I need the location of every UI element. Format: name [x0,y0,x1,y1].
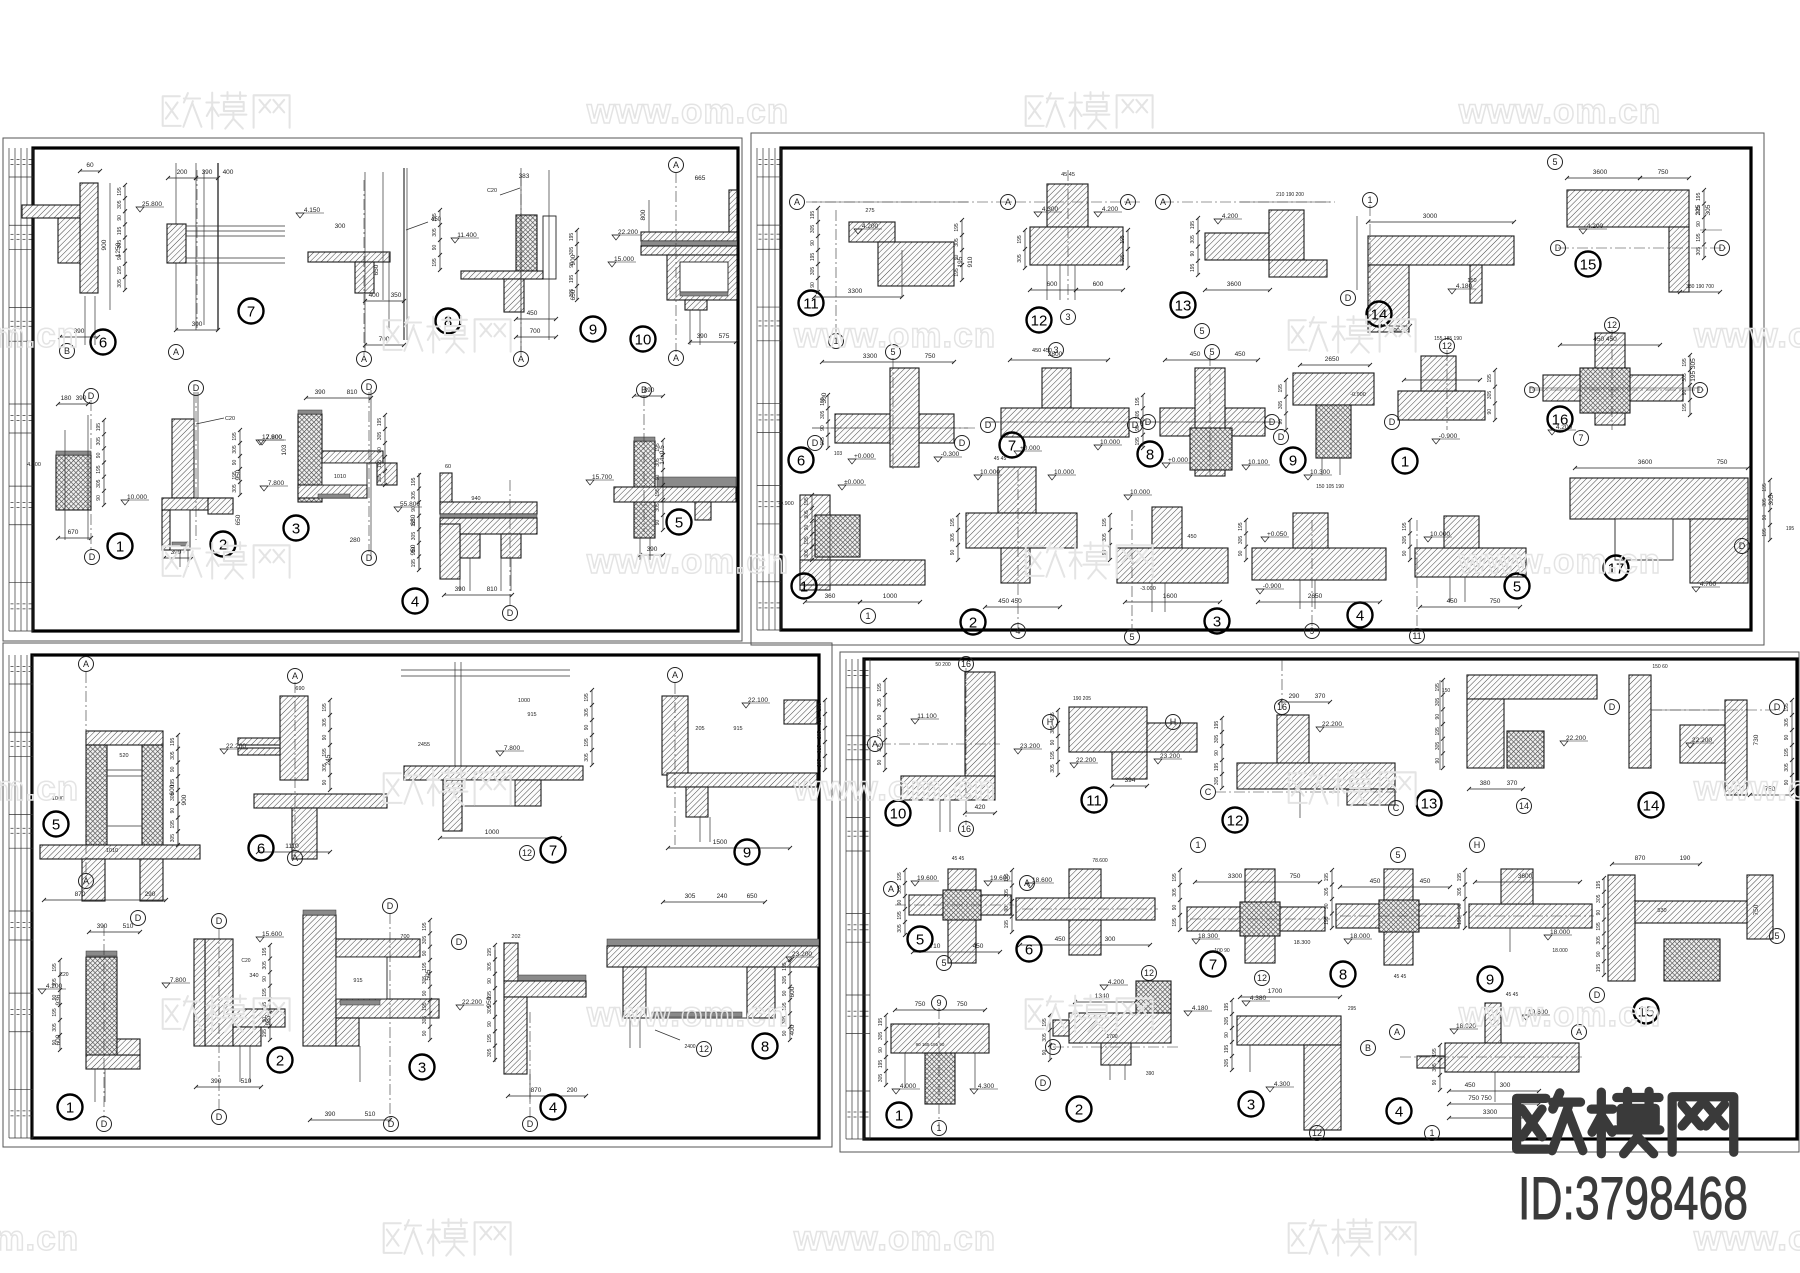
svg-text:670: 670 [68,529,79,536]
svg-text:3: 3 [1213,614,1221,631]
svg-text:700: 700 [530,328,541,335]
svg-text:A: A [361,354,367,364]
svg-text:60: 60 [86,162,94,169]
svg-text:305: 305 [322,718,328,727]
svg-text:383: 383 [519,173,530,180]
svg-text:D: D [387,901,394,911]
svg-text:9: 9 [1289,453,1297,470]
svg-text:11: 11 [803,296,819,313]
svg-text:195: 195 [804,497,810,506]
svg-text:305: 305 [584,708,590,717]
svg-text:90: 90 [950,550,956,556]
svg-text:www.om.cn: www.om.cn [1458,92,1661,131]
svg-text:A: A [1394,1027,1400,1037]
svg-text:5: 5 [1199,326,1204,336]
svg-text:www.om.cn: www.om.cn [0,316,79,355]
svg-text:90: 90 [1402,550,1408,556]
svg-text:90: 90 [1190,251,1196,257]
svg-text:400: 400 [369,292,380,299]
svg-text:C: C [1393,803,1400,813]
svg-text:-3.000: -3.000 [1140,586,1156,592]
svg-text:195: 195 [1324,873,1330,882]
svg-text:394: 394 [1125,777,1136,784]
svg-text:1: 1 [66,1100,74,1117]
svg-text:7: 7 [549,843,557,860]
svg-text:195: 195 [487,948,493,957]
svg-text:205: 205 [817,731,823,740]
svg-text:520: 520 [119,753,128,759]
svg-text:D: D [1345,293,1352,303]
svg-text:A: A [888,884,894,894]
svg-text:5: 5 [1513,579,1521,596]
svg-text:3300: 3300 [848,288,863,295]
svg-text:78.600: 78.600 [1092,858,1108,864]
svg-text:150 60: 150 60 [1652,664,1668,670]
svg-text:90: 90 [411,547,417,553]
svg-text:305: 305 [584,753,590,762]
svg-text:B: B [1365,1043,1371,1053]
svg-text:150 105 190: 150 105 190 [1316,484,1344,490]
svg-text:390: 390 [644,387,655,394]
svg-text:305: 305 [487,962,493,971]
svg-text:305: 305 [1457,887,1463,896]
svg-text:1700: 1700 [1268,988,1283,995]
svg-text:305: 305 [1705,204,1712,215]
svg-text:A: A [673,353,679,363]
svg-text:390: 390 [325,1111,336,1118]
svg-text:305: 305 [810,267,816,276]
svg-text:5: 5 [1774,931,1779,941]
svg-text:90: 90 [810,282,816,288]
svg-text:12: 12 [1227,813,1244,830]
svg-text:450 450: 450 450 [1593,336,1617,343]
svg-text:665: 665 [695,175,706,182]
svg-text:650: 650 [235,514,242,525]
svg-text:90: 90 [1596,910,1602,916]
svg-text:195: 195 [1762,528,1768,537]
svg-text:195: 195 [262,947,268,956]
svg-text:195: 195 [878,1018,884,1027]
svg-text:10: 10 [890,806,907,823]
svg-text:90: 90 [877,715,883,721]
svg-text:280: 280 [350,537,361,544]
svg-text:750: 750 [915,1001,926,1008]
svg-text:305: 305 [820,410,826,419]
svg-text:300: 300 [1105,936,1116,943]
svg-text:915: 915 [527,712,536,718]
svg-text:7: 7 [1578,433,1583,443]
svg-text:195: 195 [411,518,417,527]
svg-text:305: 305 [1696,247,1702,256]
svg-text:195: 195 [422,922,428,931]
svg-text:ID:3798468: ID:3798468 [1518,1165,1748,1232]
svg-text:195: 195 [262,988,268,997]
svg-text:195: 195 [1596,881,1602,890]
svg-text:205: 205 [695,726,704,732]
svg-text:195: 195 [820,397,826,406]
svg-text:700: 700 [400,934,409,940]
svg-text:D: D [507,608,514,618]
svg-text:690: 690 [295,686,304,692]
svg-text:10: 10 [635,332,652,349]
svg-text:195: 195 [96,465,102,474]
svg-text:305: 305 [1596,894,1602,903]
svg-text:90: 90 [232,460,238,466]
svg-text:195: 195 [411,477,417,486]
svg-text:450: 450 [1055,936,1066,943]
svg-text:195: 195 [1224,1003,1230,1012]
svg-text:D: D [1697,385,1704,395]
svg-text:195: 195 [117,187,123,196]
svg-text:305: 305 [1324,887,1330,896]
svg-text:305: 305 [52,1023,58,1032]
svg-text:450: 450 [1447,598,1458,605]
svg-text:305: 305 [1238,536,1244,545]
svg-text:195: 195 [1682,358,1688,367]
svg-text:290: 290 [567,1087,578,1094]
svg-text:A: A [518,354,524,364]
svg-text:195: 195 [96,423,102,432]
svg-text:295: 295 [1348,1006,1357,1012]
svg-text:305: 305 [117,240,123,249]
svg-text:195: 195 [411,559,417,568]
svg-text:90: 90 [1432,1080,1438,1086]
svg-text:650: 650 [373,264,380,275]
svg-text:13: 13 [1175,298,1192,315]
svg-text:195: 195 [954,223,960,232]
svg-text:305: 305 [487,1005,493,1014]
svg-text:195: 195 [1102,518,1108,527]
svg-text:190: 190 [1680,855,1691,862]
svg-text:2400: 2400 [684,1044,695,1050]
svg-text:195: 195 [810,211,816,220]
svg-text:340: 340 [249,973,258,979]
svg-text:90: 90 [377,447,383,453]
svg-text:12: 12 [1312,1128,1322,1138]
svg-text:A: A [673,160,679,170]
svg-text:7: 7 [247,304,255,321]
svg-text:305: 305 [52,978,58,987]
svg-text:305: 305 [232,445,238,454]
svg-text:450: 450 [527,310,538,317]
svg-text:870: 870 [531,1087,542,1094]
svg-text:195: 195 [782,962,788,971]
svg-text:C20: C20 [241,958,250,964]
svg-text:45 45: 45 45 [994,456,1007,462]
svg-text:305: 305 [1435,742,1441,751]
svg-text:90: 90 [422,1030,428,1036]
svg-text:www.om.cn: www.om.cn [0,769,79,808]
svg-text:810: 810 [347,389,358,396]
svg-text:5: 5 [1129,632,1134,642]
svg-text:195: 195 [170,737,176,746]
svg-text:450: 450 [1370,878,1381,885]
svg-text:305: 305 [262,961,268,970]
svg-text:195: 195 [1596,964,1602,973]
svg-text:4: 4 [411,594,419,611]
svg-text:1: 1 [865,611,870,621]
svg-text:12: 12 [1031,313,1048,330]
svg-text:195: 195 [1004,873,1010,882]
svg-text:11: 11 [1412,631,1421,641]
svg-text:600: 600 [1093,281,1104,288]
svg-text:195: 195 [1238,522,1244,531]
svg-text:390: 390 [97,923,108,930]
svg-text:390: 390 [455,586,466,593]
svg-text:www.om.cn: www.om.cn [586,995,789,1034]
svg-text:195: 195 [322,748,328,757]
svg-text:www.om.cn: www.om.cn [1458,995,1661,1034]
svg-text:90: 90 [322,780,328,786]
svg-text:1500: 1500 [713,839,728,846]
svg-text:205: 205 [817,759,823,768]
svg-text:2650: 2650 [1308,593,1323,600]
svg-text:90: 90 [954,255,960,261]
svg-text:13: 13 [1421,796,1438,813]
svg-text:18.000: 18.000 [1552,948,1568,954]
svg-text:940: 940 [471,496,480,502]
svg-text:195: 195 [655,443,661,452]
svg-text:D: D [1040,1078,1047,1088]
svg-text:90: 90 [117,254,123,260]
svg-text:290: 290 [145,891,156,898]
svg-text:195 305: 195 305 [1690,358,1697,382]
svg-text:195: 195 [1432,1048,1438,1057]
svg-text:www.om.cn: www.om.cn [793,316,996,355]
svg-text:305: 305 [432,228,438,237]
svg-text:390: 390 [315,389,326,396]
svg-text:275: 275 [865,208,874,214]
svg-text:12: 12 [1257,973,1267,983]
svg-text:D: D [1774,702,1781,712]
svg-text:305: 305 [170,751,176,760]
svg-text:100 90: 100 90 [1214,948,1230,954]
svg-text:14: 14 [1643,798,1660,815]
svg-text:C20: C20 [487,188,497,194]
svg-text:750: 750 [1658,169,1669,176]
svg-text:16: 16 [961,659,971,669]
svg-text:90: 90 [432,245,438,251]
svg-text:195: 195 [1435,683,1441,692]
svg-text:305: 305 [1190,235,1196,244]
svg-text:H: H [1474,840,1481,850]
svg-text:9: 9 [936,998,941,1008]
svg-text:14: 14 [1519,801,1529,811]
svg-text:195: 195 [117,266,123,275]
svg-text:195: 195 [1224,1045,1230,1054]
svg-text:195: 195 [804,536,810,545]
svg-text:6: 6 [797,453,805,470]
svg-text:750: 750 [1717,459,1728,466]
svg-text:90: 90 [804,525,810,531]
svg-text:D: D [88,391,95,401]
svg-text:7: 7 [1008,438,1016,455]
svg-text:3: 3 [418,1060,426,1077]
svg-text:390: 390 [202,169,213,176]
svg-text:370: 370 [1507,780,1518,787]
svg-text:3: 3 [1053,345,1058,355]
svg-text:C20: C20 [225,416,235,422]
svg-text:1: 1 [116,539,124,556]
svg-text:3: 3 [292,521,300,538]
svg-text:305: 305 [685,893,696,900]
svg-text:90: 90 [1762,515,1768,521]
svg-text:305: 305 [1487,391,1493,400]
svg-text:90: 90 [1435,758,1441,764]
svg-text:450: 450 [1187,534,1196,540]
svg-text:12: 12 [522,848,532,858]
svg-text:A: A [173,347,179,357]
svg-text:16: 16 [961,824,971,834]
svg-text:90: 90 [584,725,590,731]
svg-text:2: 2 [1075,1102,1083,1119]
svg-text:12: 12 [1144,968,1154,978]
svg-text:195: 195 [1004,920,1010,929]
svg-text:A: A [83,659,89,669]
svg-text:305: 305 [232,484,238,493]
svg-text:305: 305 [1762,498,1768,507]
svg-text:www.om.cn: www.om.cn [793,1219,996,1258]
svg-text:3000: 3000 [1423,213,1438,220]
svg-text:195: 195 [1402,522,1408,531]
svg-text:90: 90 [897,900,903,906]
svg-text:90: 90 [52,1040,58,1046]
svg-text:D: D [89,552,96,562]
svg-text:www.om.cn: www.om.cn [1693,316,1800,355]
svg-text:3600: 3600 [1593,169,1608,176]
svg-text:305: 305 [487,1048,493,1057]
svg-text:3600: 3600 [1227,281,1242,288]
svg-text:750: 750 [957,1001,968,1008]
svg-text:C: C [1205,787,1212,797]
svg-text:195: 195 [1696,192,1702,201]
svg-text:3600: 3600 [1518,873,1533,880]
svg-text:510: 510 [241,1078,252,1085]
svg-text:750: 750 [1290,873,1301,880]
svg-text:195: 195 [232,471,238,480]
svg-text:450: 450 [973,943,984,950]
svg-text:4: 4 [1395,1104,1403,1121]
svg-text:370: 370 [1315,693,1326,700]
svg-text:305: 305 [1004,889,1010,898]
svg-text:D: D [193,383,200,393]
svg-text:90: 90 [1324,903,1330,909]
svg-text:7: 7 [1209,957,1217,974]
svg-text:195: 195 [655,488,661,497]
svg-text:305: 305 [1278,401,1284,410]
svg-text:305: 305 [1050,725,1056,734]
svg-text:305: 305 [377,432,383,441]
svg-text:D: D [456,937,463,947]
svg-text:2650: 2650 [1325,356,1340,363]
svg-text:305: 305 [1224,1059,1230,1068]
svg-text:195: 195 [117,227,123,236]
svg-text:195: 195 [322,703,328,712]
svg-text:90: 90 [422,950,428,956]
svg-text:305: 305 [950,533,956,542]
svg-text:D: D [366,553,373,563]
svg-text:190 205: 190 205 [1073,696,1091,702]
svg-text:300: 300 [1500,1082,1511,1089]
svg-text:390: 390 [1146,1071,1155,1077]
svg-text:195: 195 [954,268,960,277]
svg-text:305: 305 [782,976,788,985]
svg-text:A: A [292,853,298,863]
svg-text:195: 195 [569,275,575,284]
svg-text:15: 15 [1580,257,1597,274]
svg-text:1: 1 [1195,840,1200,850]
svg-text:900: 900 [181,794,188,805]
svg-text:90: 90 [1487,409,1493,415]
svg-text:8: 8 [1339,967,1347,984]
svg-text:90: 90 [1435,714,1441,720]
svg-text:195: 195 [52,1008,58,1017]
svg-text:195: 195 [1457,873,1463,882]
svg-text:1: 1 [1367,195,1372,205]
svg-text:305: 305 [1596,936,1602,945]
svg-text:90: 90 [411,506,417,512]
svg-text:195: 195 [1214,763,1220,772]
svg-text:305: 305 [954,238,960,247]
svg-text:305: 305 [411,491,417,500]
svg-text:202: 202 [511,934,520,940]
svg-text:D: D [1278,432,1285,442]
svg-text:195: 195 [422,1002,428,1011]
svg-text:380: 380 [1480,780,1491,787]
svg-text:290: 290 [1289,693,1300,700]
svg-text:1600: 1600 [1163,593,1178,600]
svg-text:800: 800 [640,209,647,220]
svg-text:A: A [672,670,678,680]
svg-text:90: 90 [422,990,428,996]
svg-text:D: D [1739,541,1746,551]
svg-text:195: 195 [1050,751,1056,760]
svg-text:195: 195 [1457,916,1463,925]
svg-text:205: 205 [817,703,823,712]
svg-text:305: 305 [117,279,123,288]
svg-text:90: 90 [1278,419,1284,425]
svg-text:305: 305 [1224,1017,1230,1026]
svg-text:103: 103 [281,444,288,455]
svg-text:-0.900: -0.900 [778,501,794,507]
svg-text:11: 11 [1086,793,1102,810]
svg-text:90: 90 [1696,221,1702,227]
svg-text:195: 195 [584,693,590,702]
svg-text:H: H [1170,717,1177,727]
svg-text:305: 305 [170,792,176,801]
svg-text:1700: 1700 [1106,1034,1117,1040]
svg-text:195: 195 [1682,403,1688,412]
svg-text:900: 900 [101,239,108,250]
svg-text:305: 305 [1102,533,1108,542]
svg-text:4: 4 [1356,608,1364,625]
svg-text:305: 305 [1435,698,1441,707]
svg-text:D: D [527,1119,534,1129]
svg-text:195: 195 [1135,397,1141,406]
svg-text:195: 195 [432,213,438,222]
svg-text:90: 90 [1457,903,1463,909]
svg-text:1010: 1010 [106,848,118,854]
svg-text:150: 150 [1467,278,1476,284]
svg-text:350: 350 [391,292,402,299]
svg-text:90: 90 [1004,906,1010,912]
svg-text:155 185 190: 155 185 190 [1434,336,1462,342]
svg-text:90: 90 [655,520,661,526]
svg-text:650: 650 [747,893,758,900]
svg-text:195: 195 [950,518,956,527]
svg-text:195: 195 [1278,384,1284,393]
svg-text:305: 305 [377,474,383,483]
